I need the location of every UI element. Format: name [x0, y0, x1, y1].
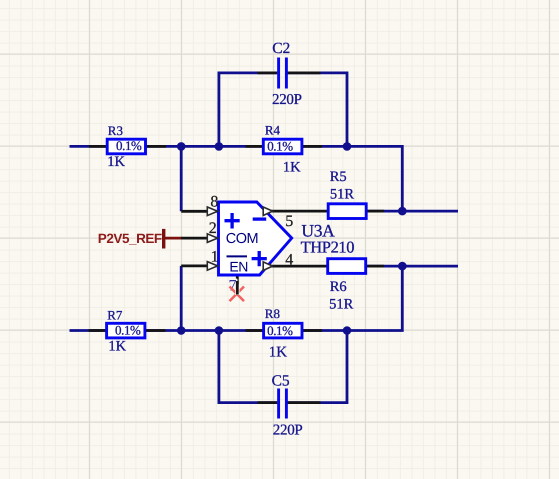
pin C2 left	[258, 72, 278, 75]
pin arrow 5	[263, 207, 272, 216]
pin stubs (black)	[89, 73, 385, 403]
wire C2 feedback loop left	[219, 73, 277, 146]
C2 right plate	[285, 58, 288, 89]
op-amp U3A	[207, 194, 354, 295]
C5 right plate	[285, 389, 288, 419]
C5 left plate	[277, 389, 280, 419]
svg-text:EN: EN	[229, 259, 247, 275]
junction dots	[177, 142, 407, 335]
pin arrow 4	[263, 262, 272, 271]
svg-text:R6: R6	[330, 279, 347, 295]
resistor R6	[328, 259, 366, 313]
node output top junction	[398, 207, 407, 216]
pin arrow 8	[207, 207, 217, 216]
net label bar	[162, 229, 165, 249]
pin R5 right	[366, 210, 384, 213]
svg-text:0.1%: 0.1%	[267, 138, 293, 153]
pin R6 right	[366, 265, 385, 268]
wire top main line with corner down to output node	[70, 146, 403, 211]
wire C5 feedback loop right	[288, 331, 347, 403]
svg-text:5: 5	[285, 213, 293, 230]
U3A body	[219, 202, 292, 275]
pin U3A 7 end over X	[235, 281, 239, 295]
pin U3A 5	[266, 210, 329, 213]
R3 body	[107, 139, 145, 154]
R4 body	[263, 139, 302, 154]
pin R4 right	[302, 145, 322, 148]
resistor R4	[263, 123, 302, 176]
pin C5 right	[288, 401, 321, 404]
pin U3A 8	[181, 210, 218, 213]
node C5 left junction	[215, 326, 224, 335]
pin R8 left	[246, 329, 265, 332]
R8 body	[264, 323, 302, 338]
svg-text:0.1%: 0.1%	[115, 322, 141, 337]
svg-text:R3: R3	[108, 123, 123, 138]
node C2 left junction	[215, 142, 224, 151]
pin C5 left	[258, 401, 278, 404]
R6 body	[328, 259, 366, 274]
resistor R3	[107, 123, 145, 170]
svg-text:P2V5_REF: P2V5_REF	[98, 231, 162, 246]
C2 left plate	[277, 58, 280, 89]
wire from top node down to pin 8	[180, 146, 183, 211]
svg-text:0.1%: 0.1%	[116, 138, 142, 153]
pin U3A 4	[267, 265, 328, 268]
node output bottom junction	[398, 262, 407, 271]
node C5 right junction	[343, 326, 352, 335]
minus mark top	[253, 217, 267, 220]
node bottom-left junction	[177, 326, 186, 335]
wire C5 feedback loop left	[219, 331, 277, 403]
svg-text:R4: R4	[265, 123, 281, 138]
pin arrow 1	[207, 262, 217, 271]
pin R3 right	[145, 145, 166, 148]
wire output top to R5 net	[366, 210, 458, 213]
pin R8 right	[302, 329, 322, 332]
wire to pin 2 (maroon)	[164, 237, 182, 240]
pin U3A 1	[181, 264, 218, 267]
wire bottom main line with corner up to output node	[70, 266, 403, 330]
svg-text:51R: 51R	[329, 297, 354, 313]
svg-text:R7: R7	[107, 308, 123, 323]
plus mark bottom	[252, 251, 267, 266]
svg-text:1K: 1K	[283, 159, 301, 175]
svg-text:COM: COM	[226, 231, 258, 247]
svg-text:220P: 220P	[272, 92, 302, 108]
pin R4 left	[246, 145, 264, 148]
pin R7 right	[145, 329, 166, 332]
pin U3A 2	[181, 237, 218, 240]
resistor R5	[328, 169, 366, 219]
wire output bottom to R6 net	[366, 265, 459, 268]
resistor R7	[107, 308, 145, 355]
pin R7 left	[89, 329, 108, 332]
wire from bottom node up to pin 1	[180, 266, 183, 331]
svg-text:1K: 1K	[107, 154, 125, 170]
svg-text:4: 4	[285, 251, 293, 268]
svg-text:C5: C5	[272, 372, 290, 389]
svg-text:THP210: THP210	[301, 238, 355, 257]
R7 body	[107, 323, 145, 338]
capacitor C2	[272, 40, 302, 108]
capacitor C5	[272, 372, 303, 438]
pin arrow 2	[207, 234, 217, 243]
svg-text:1K: 1K	[108, 338, 126, 354]
svg-text:220P: 220P	[273, 422, 303, 438]
svg-text:C2: C2	[272, 40, 290, 57]
svg-text:R5: R5	[330, 169, 347, 185]
resistor R8	[264, 306, 302, 360]
node top-left junction	[177, 142, 186, 151]
svg-text:0.1%: 0.1%	[267, 323, 293, 338]
pin C2 right	[288, 72, 321, 75]
wire C2 feedback loop right	[288, 73, 347, 146]
svg-text:R8: R8	[265, 306, 280, 321]
pin R3 left	[89, 145, 108, 148]
pin U3A 7	[236, 275, 239, 295]
svg-text:1K: 1K	[269, 344, 288, 360]
R5 body	[328, 204, 366, 219]
net label P2V5_REF	[98, 229, 182, 249]
node C2 right junction	[343, 142, 352, 151]
plus mark top	[225, 213, 240, 229]
no-ERC marker red X on pin 7	[230, 287, 245, 302]
svg-text:51R: 51R	[330, 187, 355, 203]
